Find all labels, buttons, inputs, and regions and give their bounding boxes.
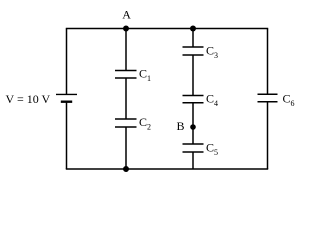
junction dot at bottom rail under C2: [123, 166, 129, 172]
wire left branch upper (top rail to battery +): [66, 29, 68, 95]
capacitor C6: [258, 93, 278, 95]
wire between C1 and C2: [125, 78, 127, 119]
wire top (node A rail): [66, 28, 268, 30]
node B junction dot: [190, 124, 196, 130]
svg-text:C5: C5: [206, 141, 218, 158]
svg-text:A: A: [122, 8, 131, 22]
capacitor C4: [183, 95, 204, 97]
svg-text:C3: C3: [206, 44, 218, 61]
svg-text:B: B: [177, 119, 185, 133]
wire bottom rail: [66, 168, 268, 170]
wire C1/C2 branch: node A to C1 top plate: [125, 29, 127, 71]
wire C5 bottom plate to bottom rail: [192, 152, 194, 169]
svg-text:C2: C2: [139, 115, 151, 132]
junction dot on top rail above C3: [190, 26, 196, 32]
capacitor C2: [115, 118, 137, 120]
wire right branch upper (top rail to C6): [267, 29, 269, 95]
wire left branch lower (battery - to bottom rail): [66, 102, 68, 169]
svg-text:V = 10 V: V = 10 V: [6, 92, 51, 106]
wire right branch lower (C6 to bottom rail): [267, 102, 269, 169]
svg-text:C4: C4: [206, 92, 218, 109]
capacitor C3: [183, 46, 204, 48]
svg-text:C1: C1: [139, 66, 151, 83]
node A junction dot: [123, 26, 129, 32]
wire between C3 and C4: [192, 55, 194, 96]
battery V (10 V source) positive long plate: [56, 93, 77, 95]
wire between C4 and C5 through node B: [192, 103, 194, 144]
capacitor C5: [183, 143, 204, 145]
wire top rail to C3: [192, 29, 194, 48]
battery V negative short thick plate: [61, 100, 72, 102]
wire C2 bottom plate to bottom rail: [125, 127, 127, 169]
capacitor C1: [115, 70, 137, 72]
svg-text:C6: C6: [283, 92, 295, 109]
